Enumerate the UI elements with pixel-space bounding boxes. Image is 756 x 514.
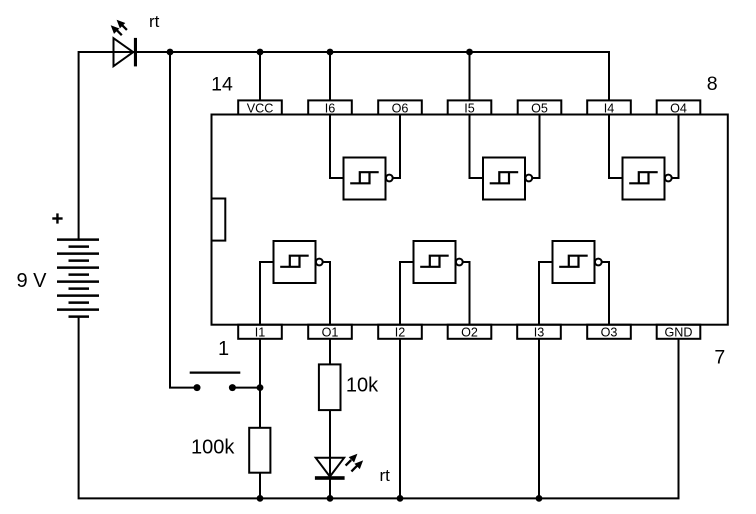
node: junction dot bottom rail / D2 — [327, 495, 334, 502]
pin box GND — [657, 325, 701, 340]
node: junction dot top rail / I5 — [466, 49, 473, 56]
IC U1 notch mark — [212, 199, 226, 241]
wire: I2 pin down to bottom rail — [399, 339, 401, 499]
node: junction dot bottom rail / R1 — [257, 495, 264, 502]
svg-text:rt: rt — [380, 466, 391, 485]
gate U1B (Schmitt-trigger inverter) — [400, 241, 470, 325]
gate U1D (Schmitt-trigger inverter) — [609, 115, 679, 200]
node: junction dot bottom rail / I2 — [397, 495, 404, 502]
svg-text:1: 1 — [218, 338, 229, 360]
svg-text:I3: I3 — [534, 326, 545, 340]
svg-text:O4: O4 — [670, 101, 687, 115]
wire: R2 through LED D2 to bottom rail — [329, 410, 331, 498]
pin box I5 — [448, 100, 492, 115]
svg-text:VCC: VCC — [247, 101, 274, 115]
pin box I4 — [587, 100, 631, 115]
pin box I3 — [517, 325, 561, 340]
svg-text:I2: I2 — [395, 326, 406, 340]
LED D1 (red) triangle — [114, 38, 134, 66]
IC U1 body (hex Schmitt-trigger inverter) — [212, 115, 728, 325]
svg-text:14: 14 — [211, 73, 233, 95]
node: junction dot top rail / switch branch — [167, 49, 174, 56]
wire: I6 stub from top rail — [329, 52, 331, 100]
node: junction dot top rail / VCC — [257, 49, 264, 56]
pin box O1 — [308, 325, 352, 340]
LED D2 cathode bar — [315, 476, 345, 480]
svg-text:O6: O6 — [392, 101, 409, 115]
node: junction dot top rail / I6 — [327, 49, 334, 56]
svg-text:rt: rt — [149, 12, 160, 31]
pin box O2 — [448, 325, 492, 340]
gate U1A (Schmitt-trigger inverter) — [260, 241, 330, 325]
LED D1 emission arrow 2 — [117, 20, 127, 30]
gate U1E (Schmitt-trigger inverter) — [470, 115, 540, 200]
LED D2 emission arrow 2 — [351, 460, 363, 471]
gate U1F (Schmitt-trigger inverter) — [330, 115, 400, 200]
svg-text:100k: 100k — [191, 437, 235, 459]
pin box I1 — [238, 325, 282, 340]
wire: battery + to top rail to pin I4 — [79, 52, 609, 241]
svg-text:O5: O5 — [531, 101, 548, 115]
wire: O1 pin down to resistor R2 — [329, 339, 331, 365]
svg-text:O3: O3 — [601, 326, 618, 340]
wire: battery - down to bottom rail, rail to GND pin — [79, 317, 679, 499]
wire: I1 pin down to resistor R1 — [259, 339, 261, 428]
LED D1 emission arrow 1 — [111, 25, 122, 35]
resistor R2 10k — [319, 364, 341, 410]
gate U1C (Schmitt-trigger inverter) — [539, 241, 609, 325]
svg-text:I1: I1 — [255, 326, 266, 340]
LED D2 emission arrow 1 — [346, 454, 358, 466]
wire: VCC stub from top rail — [259, 52, 261, 100]
wire: I3 pin down to bottom rail — [538, 339, 540, 499]
wire: top rail down to switch left contact — [170, 52, 197, 388]
pin box O4 — [657, 100, 701, 115]
pin box I2 — [378, 325, 422, 340]
pin box O3 — [587, 325, 631, 340]
svg-text:9 V: 9 V — [17, 270, 48, 292]
svg-text:I5: I5 — [464, 101, 475, 115]
wire: I5 stub from top rail — [469, 52, 471, 100]
pin box I6 — [308, 100, 352, 115]
wire: switch right contact to I1 net — [232, 387, 260, 389]
node: junction dot bottom rail / I3 — [536, 495, 543, 502]
switch S1 right contact — [229, 384, 236, 391]
battery + sign — [52, 213, 62, 223]
svg-text:I6: I6 — [325, 101, 336, 115]
svg-text:10k: 10k — [346, 375, 379, 397]
svg-text:8: 8 — [707, 73, 718, 95]
svg-text:GND: GND — [665, 326, 693, 340]
svg-text:O1: O1 — [322, 326, 339, 340]
node: junction dot switch / I1 wire — [257, 384, 264, 391]
LED D1 cathode bar — [134, 38, 137, 67]
switch S1 actuator bar — [190, 372, 241, 374]
svg-text:I4: I4 — [604, 101, 615, 115]
pin box O6 — [378, 100, 422, 115]
wire: R1 to bottom rail — [259, 473, 261, 499]
pin box VCC — [238, 100, 282, 115]
switch S1 left contact — [194, 384, 201, 391]
pin box O5 — [518, 100, 562, 115]
svg-text:O2: O2 — [461, 326, 478, 340]
svg-text:7: 7 — [714, 347, 725, 369]
resistor R1 100k — [249, 428, 270, 473]
LED D2 (red) triangle — [316, 458, 344, 477]
battery BT1 9V — [57, 240, 99, 317]
